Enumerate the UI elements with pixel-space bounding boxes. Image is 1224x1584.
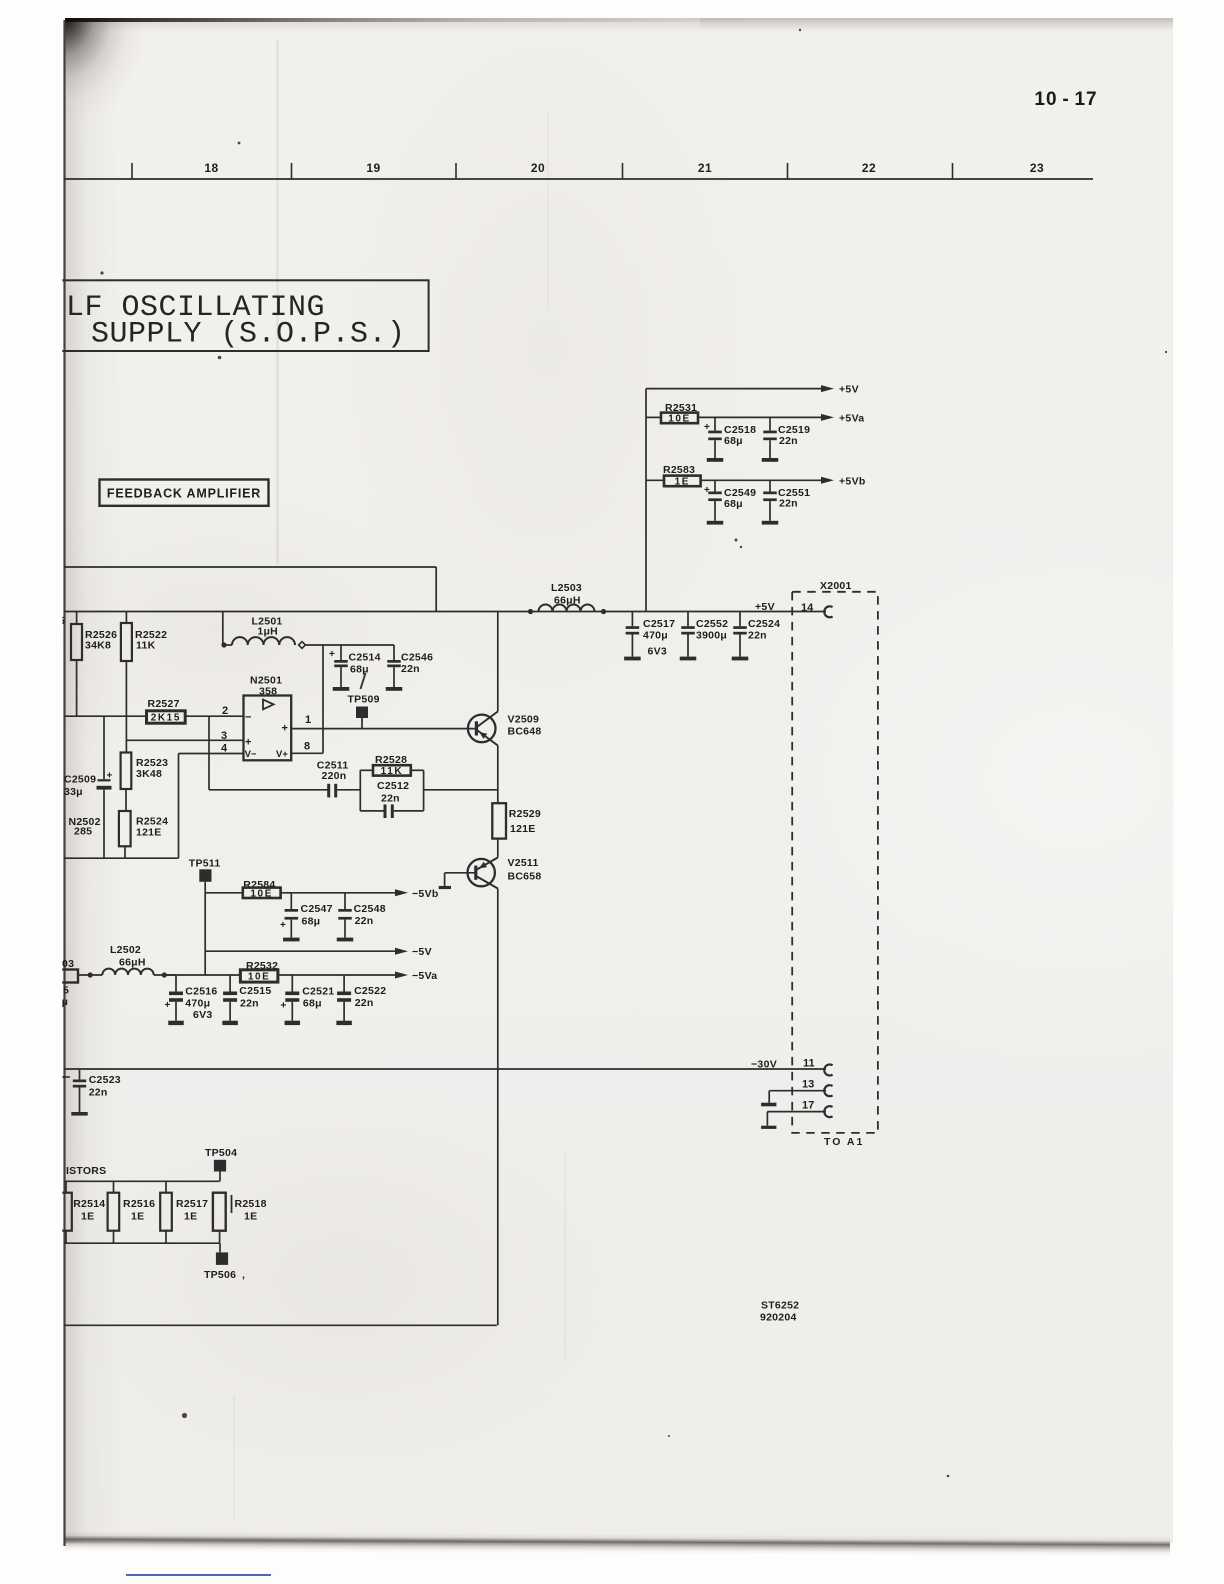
pin 17: [802, 1100, 833, 1118]
capacitor C2512: [360, 804, 423, 818]
capacitor C2519: [762, 417, 779, 461]
svg-text:22n: 22n: [240, 997, 259, 1009]
svg-text:C2516: C2516: [185, 986, 217, 998]
svg-text:C2524: C2524: [748, 618, 780, 630]
wire resistor bank top line: [64, 1180, 220, 1182]
svg-text:2: 2: [222, 705, 228, 717]
wire TP511 spine: [204, 893, 206, 975]
svg-text:C2514: C2514: [349, 652, 381, 664]
inductor L2503: [528, 605, 606, 615]
wire V2509 emitter down: [497, 746, 499, 804]
svg-text:C2548: C2548: [354, 903, 386, 915]
svg-text:6V3: 6V3: [648, 646, 667, 658]
svg-text:+: +: [107, 771, 113, 782]
stray stub at page edge: [62, 1076, 70, 1078]
svg-text:+: +: [704, 485, 710, 496]
svg-text:TP504: TP504: [205, 1147, 237, 1159]
wire page left edge line: [63, 20, 65, 1546]
svg-text:FEEDBACK AMPLIFIER: FEEDBACK AMPLIFIER: [107, 487, 261, 501]
wire op-amp output to V2509 base: [291, 728, 475, 730]
svg-text:−5Vb: −5Vb: [412, 888, 439, 900]
svg-text:C2517: C2517: [643, 618, 675, 630]
pin 14: [801, 602, 833, 617]
svg-text:C2522: C2522: [354, 985, 386, 997]
wire feedback box top: [64, 566, 436, 568]
wire lower return line: [64, 857, 179, 859]
resistor R2528 11K: [360, 765, 423, 777]
resistor R2583 1E: [646, 476, 834, 488]
svg-text:X2001: X2001: [820, 580, 852, 592]
svg-text:V+: V+: [276, 749, 288, 760]
svg-text:μ: μ: [62, 996, 69, 1008]
ruler scale line: [64, 163, 1093, 179]
svg-text:R2583: R2583: [663, 464, 695, 476]
svg-text:22n: 22n: [748, 630, 767, 642]
capacitor C2517: [624, 612, 641, 661]
resistor R2516: [108, 1181, 120, 1243]
capacitor C2518: [704, 417, 723, 461]
svg-text:11K: 11K: [136, 640, 156, 652]
capacitor C2552: [680, 612, 697, 661]
wire -5V line with arrow: [205, 948, 408, 955]
svg-text:C2547: C2547: [301, 903, 333, 915]
svg-text:C2552: C2552: [696, 618, 728, 630]
svg-text:C2521: C2521: [302, 986, 334, 998]
svg-text:10E: 10E: [668, 414, 691, 425]
resistor R2526: [71, 612, 82, 717]
testpoint TP511: [189, 858, 221, 893]
resistor R2524: [119, 811, 131, 858]
wire -30V line: [64, 1068, 826, 1070]
capacitor C2523: [71, 1069, 87, 1116]
feedback amplifier box: [100, 480, 269, 506]
svg-text:C2546: C2546: [401, 652, 433, 664]
transistor V2509: [468, 712, 498, 746]
svg-text:121E: 121E: [136, 827, 162, 839]
resistor R2584 10E: [205, 888, 408, 900]
resistor R2531 10E: [646, 413, 834, 425]
svg-text:68μ: 68μ: [303, 997, 322, 1009]
wire V2509 collector from rail: [497, 612, 499, 712]
svg-text:TP509: TP509: [348, 694, 380, 706]
svg-text:+: +: [282, 723, 288, 735]
capacitor C2551: [762, 480, 779, 524]
white clip outside page edge: [0, 0, 62, 1584]
svg-text:−5Va: −5Va: [412, 970, 437, 982]
resistor R2517: [160, 1181, 172, 1243]
svg-text:10 - 17: 10 - 17: [1034, 89, 1097, 110]
svg-text:+: +: [281, 1001, 287, 1012]
svg-text:,: ,: [242, 1269, 245, 1281]
svg-text:C2523: C2523: [89, 1074, 121, 1086]
pen underline mark: [126, 1574, 271, 1576]
svg-text:+5Va: +5Va: [839, 413, 864, 425]
svg-text:22n: 22n: [779, 498, 798, 510]
svg-text:33μ: 33μ: [64, 786, 83, 798]
svg-text:1E: 1E: [675, 477, 690, 488]
op-amp N2501: [244, 696, 292, 761]
svg-text:3K48: 3K48: [136, 768, 162, 780]
svg-text:22n: 22n: [89, 1087, 108, 1099]
svg-text:2K15: 2K15: [151, 713, 181, 724]
capacitor C2521: [281, 975, 301, 1025]
wire L2501 tap from rail: [222, 612, 224, 646]
testpoint TP504: [205, 1147, 237, 1181]
svg-text:+5Vb: +5Vb: [839, 475, 866, 487]
svg-text:3900μ: 3900μ: [696, 630, 727, 642]
svg-text:22n: 22n: [355, 915, 374, 927]
pin 11: [803, 1058, 833, 1076]
svg-text:L2503: L2503: [551, 582, 582, 594]
svg-text:03: 03: [62, 958, 74, 970]
wire block bottom boundary: [64, 1324, 497, 1326]
connector X2001 dashed outline: [792, 592, 878, 1133]
transistor V2511: [468, 858, 498, 889]
svg-text:470μ: 470μ: [185, 998, 210, 1010]
svg-text:20: 20: [531, 161, 545, 175]
wire pin3 line: [126, 739, 243, 741]
svg-text:22n: 22n: [381, 793, 400, 805]
svg-text:+: +: [165, 1000, 171, 1011]
svg-text:1: 1: [305, 714, 311, 726]
resistor R2523: [121, 753, 132, 812]
svg-text:920204: 920204: [760, 1312, 797, 1324]
wire L2501 output line: [305, 644, 394, 646]
svg-text:−30V: −30V: [751, 1059, 777, 1071]
svg-text:+5V: +5V: [839, 384, 859, 396]
inductor L2501: [221, 637, 305, 648]
testpoint TP506: [204, 1243, 245, 1281]
resistor R2529: [492, 803, 506, 838]
svg-text:22n: 22n: [779, 435, 798, 447]
cut component at page edge: [52, 958, 78, 1008]
svg-text:285: 285: [74, 826, 92, 838]
svg-text:−5V: −5V: [412, 946, 432, 958]
svg-text:68μ: 68μ: [724, 498, 743, 510]
svg-text:−: −: [245, 712, 251, 724]
svg-text:11K: 11K: [381, 766, 404, 777]
resistor R2522: [121, 612, 132, 753]
testpoint TP509: [348, 694, 380, 729]
svg-text:14: 14: [801, 602, 814, 614]
cut fragments at page edge: [59, 615, 65, 643]
wire feedback drop from pin2: [209, 716, 328, 790]
svg-text:22n: 22n: [355, 997, 374, 1009]
svg-text:1E: 1E: [244, 1211, 257, 1223]
paper specks: [100, 29, 1167, 1477]
svg-text:+: +: [704, 422, 710, 433]
svg-text:SUPPLY (S.O.P.S.): SUPPLY (S.O.P.S.): [91, 318, 406, 352]
svg-text:ISTORS: ISTORS: [66, 1165, 106, 1177]
svg-text:8: 8: [304, 741, 310, 753]
capacitor C2514: [329, 645, 349, 691]
svg-text:ST6252: ST6252: [761, 1300, 799, 1312]
wire feedback box right vertical: [435, 567, 437, 612]
capacitor C2516: [165, 975, 184, 1025]
svg-text:TP506: TP506: [204, 1269, 236, 1281]
svg-text:R2517: R2517: [176, 1198, 208, 1210]
wire -5Va line with arrow: [164, 972, 408, 979]
inductor L2502: [78, 969, 176, 978]
svg-text:+5V: +5V: [755, 601, 775, 613]
svg-text:1E: 1E: [81, 1211, 94, 1223]
svg-text:11: 11: [803, 1058, 815, 1070]
svg-text:68μ: 68μ: [724, 435, 743, 447]
stray slash mark: [361, 673, 366, 689]
svg-text:1μH: 1μH: [257, 626, 278, 638]
svg-text:V2511: V2511: [508, 857, 539, 869]
svg-text:R2514: R2514: [73, 1198, 105, 1210]
wire +5V spine vertical: [645, 389, 647, 612]
svg-text:22: 22: [862, 161, 876, 175]
capacitor C2511: [327, 784, 360, 798]
svg-text:10E: 10E: [248, 972, 271, 983]
svg-text:+: +: [329, 649, 335, 660]
svg-text:470μ: 470μ: [643, 630, 668, 642]
ruler numbers 18-23: [204, 161, 1044, 175]
svg-text:+: +: [280, 920, 286, 931]
svg-text:10E: 10E: [250, 888, 273, 899]
svg-text:68μ: 68μ: [302, 916, 321, 928]
capacitor C2549: [704, 480, 723, 524]
svg-text:21: 21: [698, 161, 712, 175]
svg-text:17: 17: [802, 1100, 814, 1112]
resistor R2518: [213, 1193, 226, 1244]
resistor R2532 10E: [240, 970, 278, 982]
title box SELF OSCILLATING SUPPLY: [58, 280, 429, 351]
svg-text:R2527: R2527: [148, 698, 180, 710]
wire +5V top rail with arrow: [646, 385, 834, 392]
svg-text:6V3: 6V3: [193, 1009, 212, 1021]
capacitor C2547: [280, 893, 300, 942]
capacitor C2546: [386, 645, 403, 691]
svg-text:220n: 220n: [322, 770, 347, 782]
svg-text:34K8: 34K8: [85, 640, 111, 652]
svg-text:L2502: L2502: [110, 944, 141, 956]
svg-text:19: 19: [366, 161, 380, 175]
svg-text:1E: 1E: [184, 1211, 197, 1223]
svg-text:23: 23: [1030, 161, 1044, 175]
svg-text:66μH: 66μH: [119, 957, 146, 969]
V2511 base network: [439, 873, 475, 889]
svg-text:C2512: C2512: [377, 780, 409, 792]
svg-text:TO A1: TO A1: [824, 1136, 864, 1148]
svg-text:22n: 22n: [401, 663, 420, 675]
wire op-amp V+ supply riser: [291, 645, 323, 753]
resistor R2527 2K15: [64, 711, 244, 724]
capacitor C2524: [732, 612, 749, 661]
capacitor C2515: [222, 975, 238, 1025]
resistor R2514: [60, 1181, 72, 1243]
wire main +5V rail: [64, 611, 826, 613]
wire pin4 line: [179, 754, 244, 859]
svg-text:13: 13: [802, 1079, 814, 1091]
svg-text:1E: 1E: [131, 1211, 144, 1223]
svg-text:5: 5: [63, 985, 69, 997]
capacitor C2522: [336, 975, 352, 1025]
wire R2529 to V2511: [497, 839, 499, 858]
R2518 labels: [232, 1195, 267, 1223]
svg-text:C2509: C2509: [64, 774, 96, 786]
svg-text:R2518: R2518: [235, 1198, 267, 1210]
svg-text:121E: 121E: [510, 823, 536, 835]
svg-text:C2515: C2515: [239, 985, 271, 997]
svg-text:+: +: [245, 737, 251, 749]
wire pin17 branch with plate: [761, 1112, 826, 1129]
pin 13: [802, 1079, 833, 1097]
wire resistor bank bottom line: [64, 1242, 220, 1244]
svg-text:R2529: R2529: [509, 808, 541, 820]
svg-text:18: 18: [204, 161, 218, 175]
wire pin13 branch with plate: [761, 1091, 826, 1107]
svg-text:R2516: R2516: [123, 1198, 155, 1210]
svg-text:BC658: BC658: [508, 870, 542, 882]
R2528 C2512 parallel block: [360, 770, 423, 811]
svg-text:TP511: TP511: [189, 858, 221, 870]
svg-text:V2509: V2509: [508, 713, 540, 725]
capacitor C2548: [337, 893, 354, 942]
capacitor C2509: [97, 716, 113, 858]
svg-text:BC648: BC648: [508, 725, 542, 737]
wire V2511 emitter long vertical: [497, 889, 499, 1326]
svg-text:V−: V−: [245, 749, 257, 760]
wire feedback to emitter node: [424, 789, 498, 791]
